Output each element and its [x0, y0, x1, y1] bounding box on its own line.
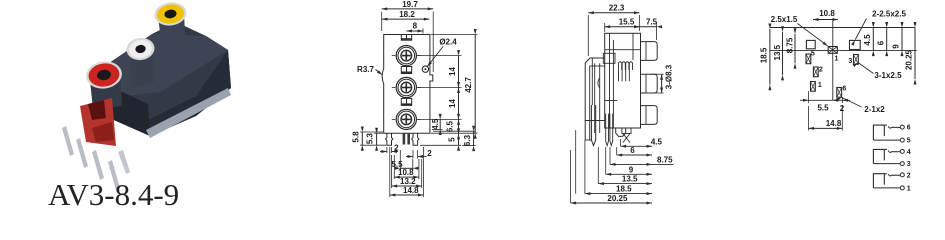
svg-text:42.7: 42.7	[464, 77, 473, 93]
dim 5.8	[351, 127, 383, 151]
dim 8	[406, 22, 423, 34]
pad center (pin 1 anchor)	[828, 47, 838, 63]
photo: yellow RCA ring	[153, 0, 188, 27]
side view dim extension lines	[571, 130, 621, 203]
side view barrel 3	[641, 106, 658, 125]
svg-text:14.8: 14.8	[403, 186, 419, 195]
front view jack 2 circles	[392, 77, 421, 97]
pad pin 3	[848, 55, 858, 66]
svg-text:2-1x2: 2-1x2	[864, 105, 885, 114]
front view jack 3 circles	[392, 109, 421, 129]
dim 9 footprint	[892, 22, 904, 56]
side view rear bracket	[585, 58, 605, 140]
schematic jack 1 (pins 6/5)	[873, 125, 910, 145]
dim 19.7	[382, 0, 434, 72]
svg-text:4.5: 4.5	[431, 118, 440, 130]
dim 8.75 side	[610, 156, 674, 166]
pad pin 2	[813, 67, 822, 77]
svg-text:3-Ø8.3: 3-Ø8.3	[664, 64, 673, 89]
dim 42.7	[431, 29, 478, 139]
dim 22.3	[588, 3, 639, 56]
svg-text:2: 2	[427, 149, 432, 158]
photo: white jack cylinder	[129, 40, 154, 88]
photo: red jack cylinder	[89, 66, 122, 110]
dim 20.25 side	[571, 194, 652, 205]
side view barrel 2	[641, 74, 658, 93]
side view main block	[605, 33, 641, 128]
svg-text:8.75: 8.75	[657, 156, 673, 165]
photo: red plastic base	[80, 98, 116, 146]
dim 14 lower	[417, 82, 462, 125]
dim 13.5 footprint	[773, 26, 784, 80]
svg-text:18.5: 18.5	[616, 185, 632, 194]
svg-text:20.25: 20.25	[607, 194, 628, 203]
dim 18.2	[382, 10, 430, 20]
dim 9 side	[606, 165, 652, 176]
label 2.5x1.5	[771, 15, 828, 46]
svg-text:8: 8	[413, 22, 418, 31]
dim 13.2	[392, 155, 422, 188]
photo: solder pins	[62, 126, 130, 190]
dim 14.8 footprint	[809, 106, 843, 131]
svg-text:6: 6	[842, 86, 846, 93]
dim 14 upper	[417, 50, 462, 93]
svg-text:5: 5	[811, 51, 815, 58]
dim 5.3	[360, 128, 386, 151]
svg-text:5: 5	[448, 137, 457, 142]
dim 14.8 front	[390, 147, 424, 197]
schematic jack 3 (pins 2/1)	[873, 173, 910, 193]
photo: yellow jack cylinder	[158, 12, 186, 64]
label 3-1x2.5	[853, 63, 903, 81]
dim 6 side	[617, 146, 652, 157]
svg-text:5.3: 5.3	[366, 132, 375, 144]
svg-text:8.75: 8.75	[786, 37, 795, 53]
svg-text:4.5: 4.5	[651, 137, 663, 146]
dim 5.5 and 2 footprint	[800, 91, 850, 113]
svg-text:4.5: 4.5	[863, 34, 872, 46]
photo: red RCA ring	[84, 59, 123, 91]
svg-text:6.3: 6.3	[463, 134, 472, 146]
svg-text:6: 6	[907, 125, 911, 132]
svg-text:13.5: 13.5	[773, 44, 782, 60]
svg-text:R3.7: R3.7	[357, 65, 374, 74]
dim 3-O8.3	[650, 64, 673, 93]
svg-text:10.8: 10.8	[819, 9, 835, 18]
svg-text:3: 3	[907, 161, 911, 168]
front view divider block 2	[401, 67, 411, 74]
svg-text:5: 5	[907, 138, 911, 145]
dim 10.8 footprint	[813, 9, 838, 21]
svg-text:13.5: 13.5	[622, 175, 638, 184]
svg-text:AV3-8.4-9: AV3-8.4-9	[48, 177, 179, 210]
svg-text:9: 9	[629, 165, 634, 174]
dim 15.5	[605, 17, 640, 32]
front view divider block 3	[401, 98, 411, 105]
svg-text:22.3: 22.3	[609, 3, 625, 12]
svg-text:2.5x1.5: 2.5x1.5	[771, 15, 798, 24]
dim 6 footprint	[876, 22, 888, 56]
label 2-2.5x2.5	[851, 10, 906, 46]
title AV3-8.4-9	[48, 177, 179, 212]
svg-text:6: 6	[876, 40, 885, 45]
dim 5.5 front	[391, 150, 418, 170]
svg-text:10.8: 10.8	[398, 168, 414, 177]
dim 4.5 front	[431, 114, 443, 135]
pad pin 6	[837, 86, 847, 98]
svg-text:2: 2	[907, 173, 911, 180]
svg-text:Ø2.4: Ø2.4	[439, 38, 457, 47]
dim 8.75 footprint	[786, 28, 797, 68]
svg-text:3: 3	[848, 58, 852, 65]
dim 13.5 side	[598, 175, 652, 185]
footprint reference lines	[770, 19, 917, 100]
dim 10.8 front	[394, 155, 419, 179]
dim 6.5 and 5	[420, 114, 461, 151]
photo: white RCA ring	[125, 36, 156, 62]
pad pin 5	[806, 51, 815, 64]
svg-text:4: 4	[907, 149, 911, 156]
front view jack 1 circles	[392, 46, 421, 66]
photo: connector body	[96, 22, 231, 138]
dim 4.5 side	[621, 137, 663, 148]
front view divider block 1	[401, 35, 411, 41]
label 2-1x2	[836, 97, 885, 114]
front view body outline	[382, 35, 433, 134]
svg-text:5.5: 5.5	[817, 104, 829, 113]
svg-text:9: 9	[892, 44, 901, 49]
svg-text:7.5: 7.5	[646, 17, 658, 26]
svg-text:18.5: 18.5	[760, 47, 769, 63]
svg-text:2: 2	[394, 143, 399, 152]
pad 2-2.5x2.5 right	[850, 40, 861, 49]
dim 2 right	[406, 149, 432, 159]
label O2.4	[427, 38, 457, 67]
svg-text:13.2: 13.2	[400, 177, 416, 186]
dim 18.5 footprint	[760, 24, 772, 91]
side view barrel 1	[641, 42, 658, 61]
pad 2.5x1.5 left	[806, 40, 815, 48]
svg-text:1: 1	[907, 186, 911, 193]
svg-text:6: 6	[630, 146, 635, 155]
svg-text:1: 1	[818, 82, 822, 89]
svg-text:14.8: 14.8	[826, 119, 842, 128]
dim 18.5 side	[585, 185, 652, 196]
dim 6.3	[433, 126, 476, 151]
schematic jack 2 (pins 4/3)	[873, 149, 910, 168]
svg-text:2: 2	[819, 67, 823, 74]
side view bottom pins	[591, 105, 631, 146]
svg-text:14: 14	[448, 99, 457, 108]
svg-text:18.2: 18.2	[399, 10, 415, 19]
dim 20.25 footprint	[904, 22, 916, 85]
svg-text:5.8: 5.8	[351, 131, 360, 143]
svg-text:14: 14	[448, 67, 457, 76]
svg-text:20.25: 20.25	[904, 49, 913, 70]
svg-text:2-2.5x2.5: 2-2.5x2.5	[872, 10, 906, 19]
svg-text:6.5: 6.5	[445, 120, 454, 132]
front view center pins	[403, 133, 410, 144]
pad pin 1	[811, 82, 822, 92]
dim 2 left	[380, 143, 399, 153]
label R3.7	[357, 65, 382, 75]
svg-text:3-1x2.5: 3-1x2.5	[874, 71, 902, 80]
svg-text:1: 1	[835, 56, 839, 63]
side view internal details	[603, 33, 640, 128]
dim 4.5 footprint	[863, 22, 875, 56]
front view snap legs	[386, 133, 419, 145]
svg-text:19.7: 19.7	[402, 0, 418, 9]
svg-text:15.5: 15.5	[619, 17, 635, 26]
dim 7.5	[634, 17, 662, 40]
front view hole O2.4	[422, 66, 428, 72]
